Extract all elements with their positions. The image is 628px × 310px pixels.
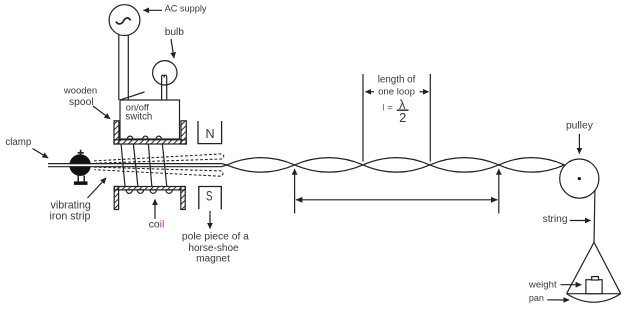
- svg-text:pan: pan: [529, 293, 544, 303]
- svg-text:coil: coil: [149, 220, 165, 231]
- wire from G1 to switch box (right): [127, 35, 129, 100]
- arrow from pulley label to P1: [578, 134, 580, 154]
- string standing wave curve B: [227, 158, 565, 173]
- svg-text:length of: length of: [378, 75, 416, 86]
- wooden spool bottom flange right wall (hatched): [181, 187, 185, 210]
- arrow from pan label to pan arc: [547, 299, 569, 301]
- switch box SW1: [120, 100, 180, 139]
- clamp legs: [78, 176, 84, 182]
- wooden spool bottom flange top slab (hatched): [114, 187, 185, 190]
- svg-text:spool: spool: [69, 97, 94, 108]
- weight pan cone right side: [594, 242, 621, 293]
- AC sine symbol inside G1: [116, 18, 131, 24]
- svg-text:magnet: magnet: [196, 254, 230, 265]
- arrow from AC supply label to G1: [144, 9, 163, 11]
- vibrating iron strip top edge: [48, 164, 227, 165]
- pulley axle dot: [578, 177, 581, 180]
- wooden spool bottom flange left wall (hatched): [114, 187, 118, 210]
- coil wire turn 4: [162, 144, 166, 187]
- svg-text:l =: l =: [383, 103, 394, 114]
- bulb B1 circle: [153, 61, 177, 85]
- svg-text:S: S: [206, 188, 213, 204]
- AC supply source G1 circle: [109, 5, 140, 36]
- svg-text:switch: switch: [125, 112, 152, 123]
- svg-text:clamp: clamp: [5, 137, 31, 148]
- wire bulb to box (left): [161, 77, 163, 100]
- weight W1 knob: [592, 277, 599, 280]
- coil wire loops under bottom slab: [126, 190, 172, 194]
- white gap of strip through ball: [69, 164, 93, 166]
- coil wire turn 3: [148, 144, 151, 187]
- coil wire humps inside box bottom: [127, 136, 161, 139]
- wire bulb to box (right): [166, 77, 168, 100]
- arrow from vibrating iron strip label to strip: [88, 178, 107, 198]
- weight pan chord: [567, 293, 621, 295]
- arrow from string label to string: [570, 220, 591, 222]
- svg-text:bulb: bulb: [165, 27, 185, 38]
- strip vibration envelope lower (dashed): [94, 167, 223, 176]
- svg-text:2: 2: [399, 110, 406, 125]
- svg-text:pulley: pulley: [566, 121, 594, 132]
- weight pan cone left side: [567, 242, 594, 293]
- node dimension right vertical with up arrow: [498, 169, 500, 213]
- loop-length dimension left arrow: [366, 91, 375, 93]
- svg-text:horse-shoe: horse-shoe: [188, 243, 239, 254]
- svg-text:wooden: wooden: [63, 85, 97, 96]
- svg-text:one loop: one loop: [378, 87, 415, 98]
- clamp base (filled bar): [74, 181, 88, 185]
- loop-length dimension right arrow: [420, 91, 429, 93]
- arrow from S pole to pole-piece label: [209, 211, 211, 229]
- svg-text:N: N: [205, 127, 214, 141]
- svg-text:weight: weight: [528, 280, 557, 291]
- node dimension left vertical with up arrow: [294, 169, 296, 213]
- magnet pole piece N (open-top U): [198, 121, 222, 144]
- bulb filament loop: [162, 75, 167, 77]
- svg-text:iron strip: iron strip: [50, 211, 91, 223]
- fraction bar: [397, 109, 409, 111]
- strip vibration envelope upper (dashed): [94, 154, 224, 163]
- svg-text:AC supply: AC supply: [165, 4, 207, 14]
- magnet pole piece S (open-bottom): [199, 187, 222, 210]
- arrow from bulb label to B1: [171, 39, 174, 58]
- clamp screw cross on top: [78, 150, 84, 156]
- weight pan bottom arc: [567, 294, 621, 303]
- wooden spool top flange left wall (hatched): [114, 121, 119, 144]
- svg-text:string: string: [543, 214, 568, 225]
- arrow from wooden spool label to flange: [93, 106, 110, 119]
- coil wire turn 1: [121, 144, 125, 187]
- arrow from clamp label to strip end: [33, 149, 49, 158]
- arrow from weight label to W1: [561, 284, 582, 286]
- loop-length dimension left extension line: [362, 74, 364, 162]
- svg-text:pole piece of a: pole piece of a: [182, 232, 249, 243]
- string standing wave curve A: [227, 158, 565, 173]
- wooden spool top flange right wall (hatched): [181, 121, 186, 144]
- svg-text:vibrating: vibrating: [50, 200, 90, 212]
- vibrating iron strip bottom edge: [48, 165, 227, 167]
- wooden spool top flange bottom slab (hatched): [114, 140, 186, 144]
- pulley P1 circle: [560, 159, 599, 198]
- clamp ball (filled): [69, 154, 91, 176]
- wire from G1 to switch box (left): [118, 34, 120, 100]
- weight W1 block: [586, 280, 602, 294]
- switch lever SW1: [120, 92, 145, 100]
- arrow from coil label to coil: [154, 200, 156, 220]
- coil wire turn 2: [133, 144, 138, 187]
- loop-length dimension right extension line: [429, 74, 431, 162]
- node dimension horizontal double arrow: [296, 199, 497, 201]
- string from pulley to pan: [593, 191, 596, 242]
